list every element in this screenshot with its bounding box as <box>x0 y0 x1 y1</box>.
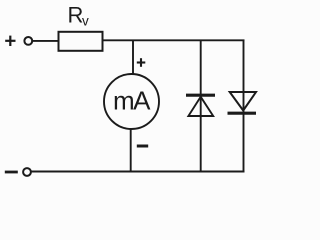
diode D2 cathode bar <box>228 112 257 115</box>
wire meter branch top <box>132 41 134 75</box>
diode D2 triangle <box>230 92 256 111</box>
ammeter mA meter <box>104 74 159 129</box>
meter polarity minus label <box>137 145 148 148</box>
label Rv <box>68 3 90 29</box>
svg-text:R: R <box>68 3 84 28</box>
wire diode D1 branch <box>200 41 202 172</box>
terminal + input <box>24 37 32 45</box>
svg-text:v: v <box>82 14 89 29</box>
wire input to resistor <box>33 40 58 42</box>
resistor Rv <box>59 32 103 51</box>
svg-text:mA: mA <box>113 86 151 116</box>
wire meter branch bottom <box>130 129 132 172</box>
plus label (positive input) <box>5 36 15 46</box>
meter polarity plus label <box>137 58 146 67</box>
wire bottom <box>31 171 245 173</box>
wire top (resistor to right corner) <box>103 39 245 41</box>
diode D1 triangle <box>188 97 213 116</box>
minus label (negative input) <box>5 171 18 174</box>
wire diode D2 branch (right side) <box>243 41 245 172</box>
terminal - input <box>23 168 31 176</box>
diode D1 cathode bar <box>186 94 215 97</box>
